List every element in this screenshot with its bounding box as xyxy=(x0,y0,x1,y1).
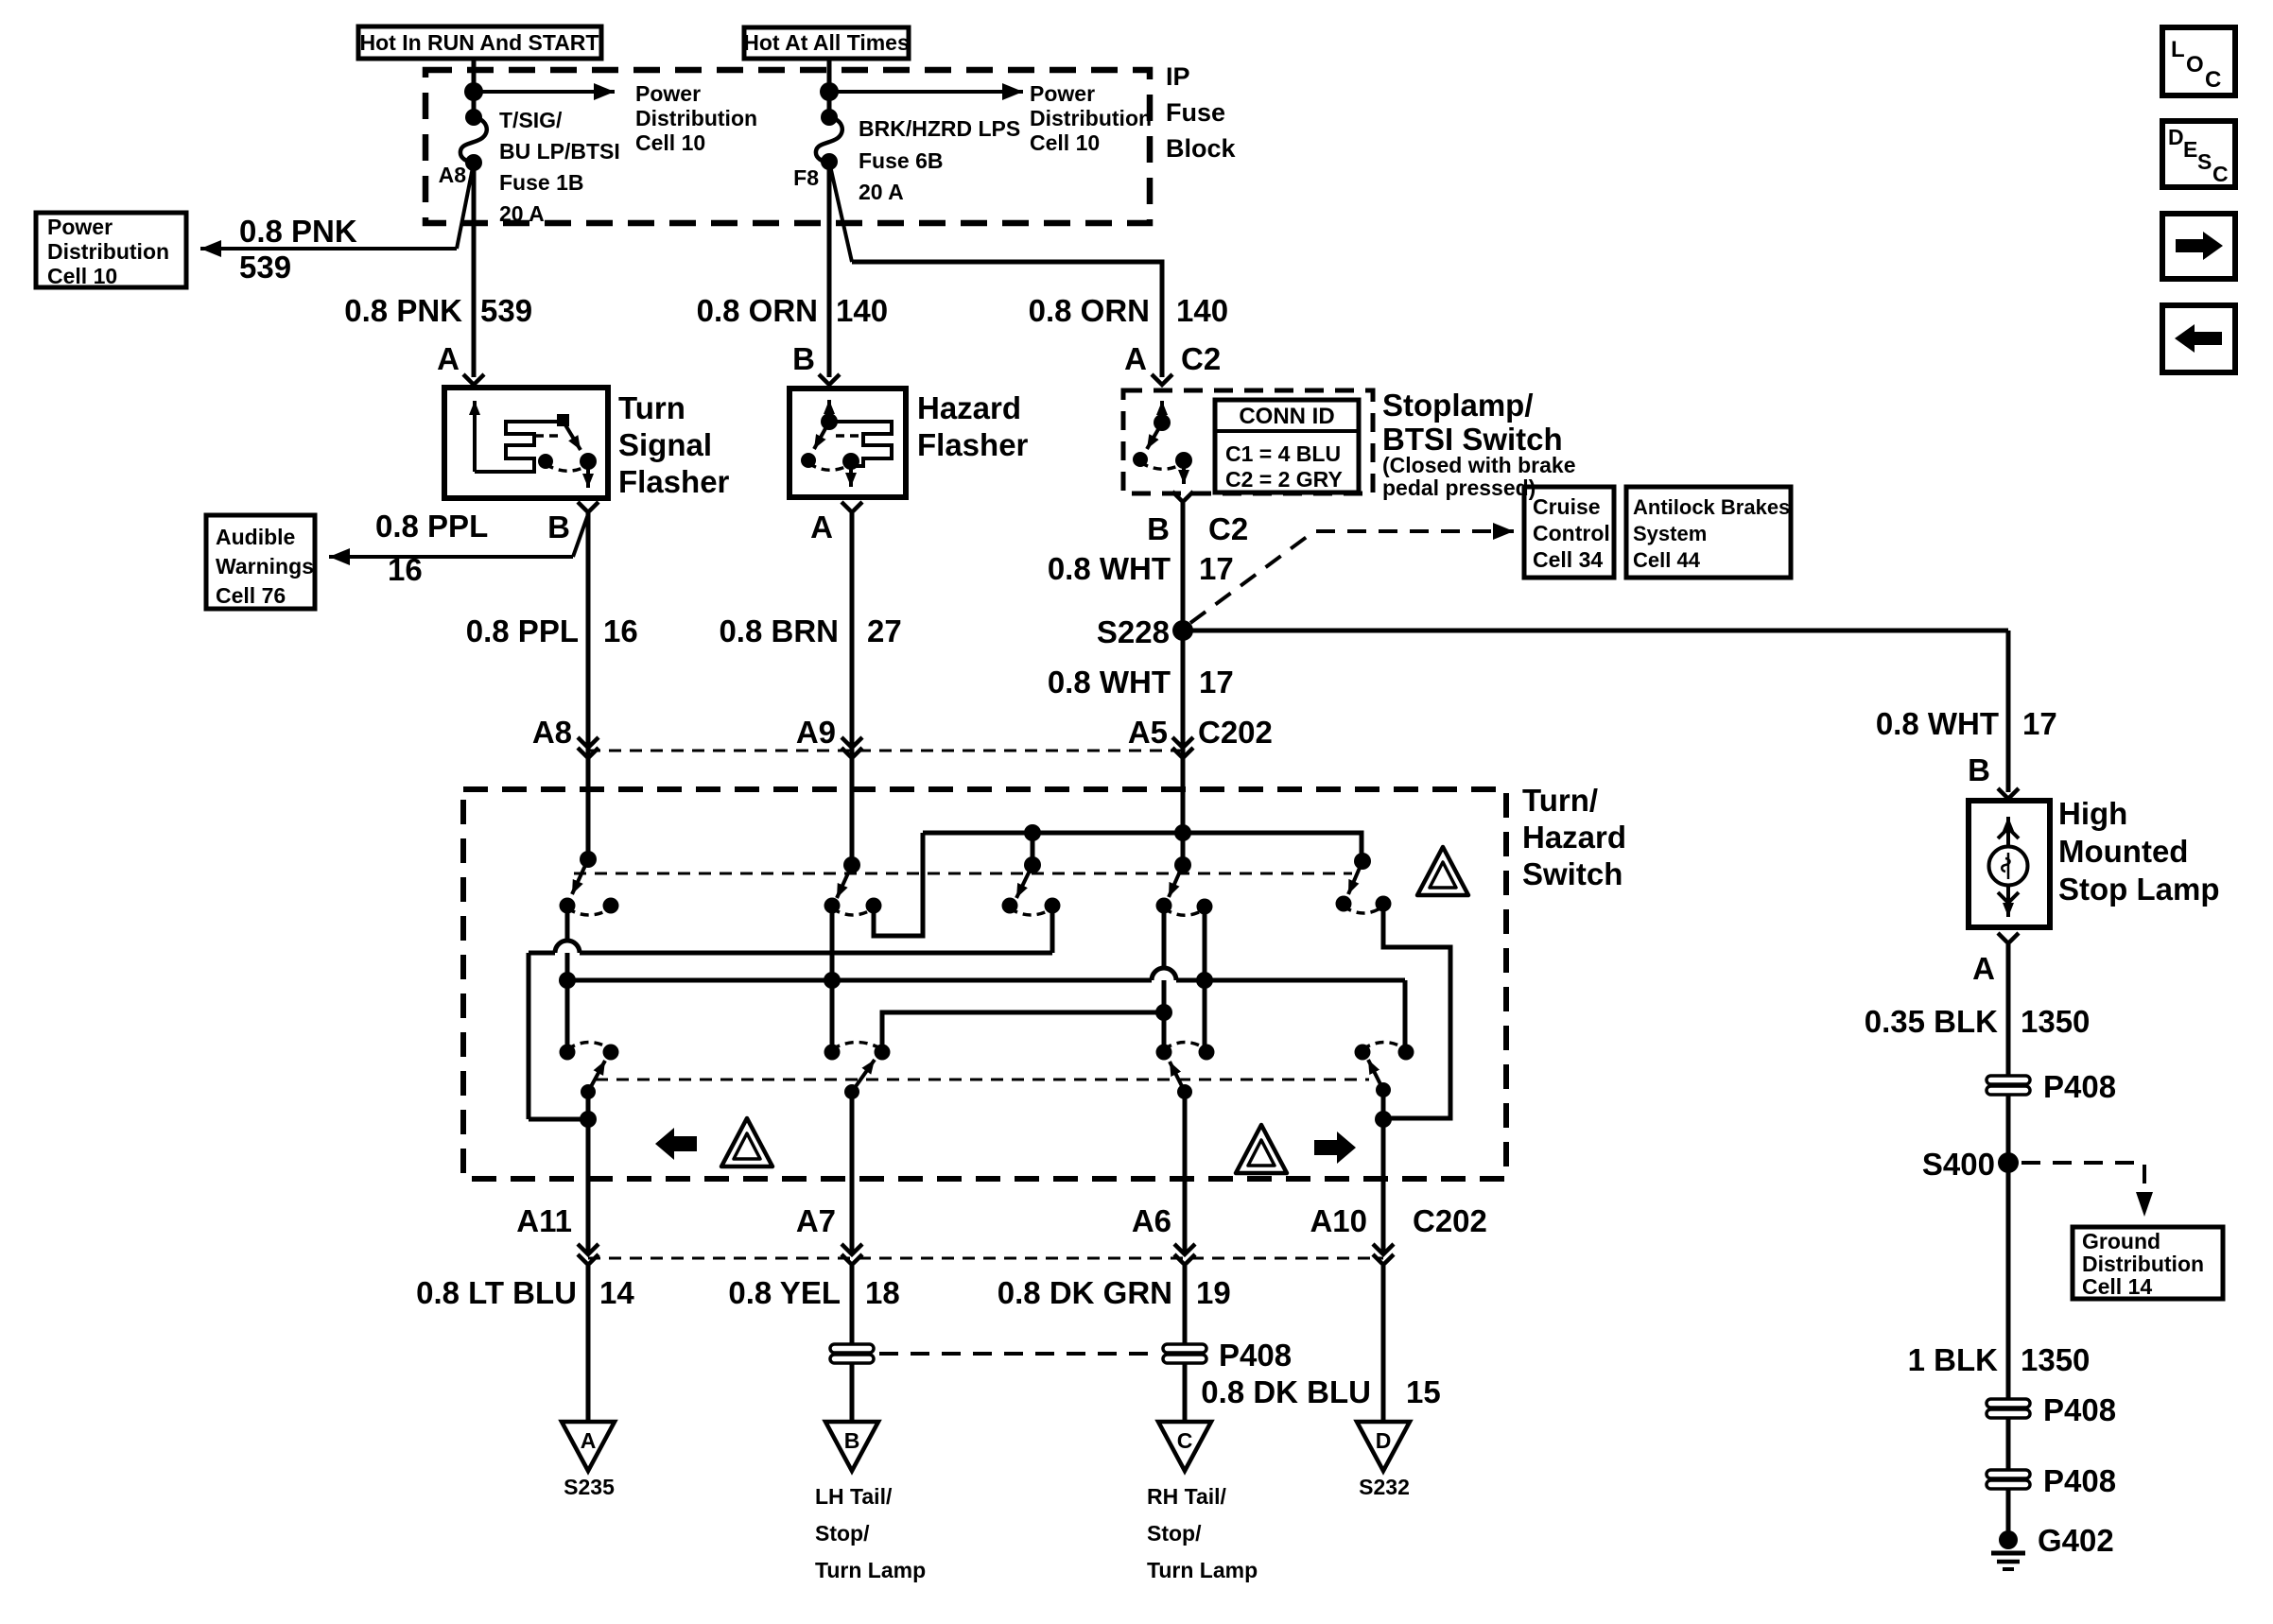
svg-text:B: B xyxy=(1147,511,1170,546)
svg-text:A5: A5 xyxy=(1128,715,1168,750)
wire: turn flasher B output down xyxy=(586,513,591,857)
wire: lower pole 1 arm down to A11 xyxy=(586,1092,591,1253)
header box: Hot At All Times xyxy=(743,27,910,59)
switch pole 3 pivot dot xyxy=(1002,898,1018,914)
turn flasher output down arrow xyxy=(586,462,590,488)
hazard flasher heater meander xyxy=(829,422,892,466)
svg-text:F8: F8 xyxy=(793,165,819,190)
connector chevron at hazard flasher A xyxy=(842,502,862,512)
connector C202 chevrons at A5 xyxy=(1172,737,1193,758)
lower pole 4 right contact dot xyxy=(1398,1045,1414,1061)
connector chevron at stop lamp A xyxy=(1998,933,2019,943)
turn flasher moving contact square dot xyxy=(557,414,569,426)
switch pole 2 arm arrow xyxy=(837,865,852,898)
switch pole 5 top dot xyxy=(1354,853,1371,870)
IP Fuse Block dashed box xyxy=(425,70,1150,223)
hazard flasher input dot xyxy=(821,413,838,430)
svg-text:A: A xyxy=(810,510,833,544)
switch pole 3 right contact dot xyxy=(1045,898,1061,914)
wire: cross bus line B with hop over pole4 vertical xyxy=(567,968,1405,1052)
wire 0.8 ORN 140 down to hazard flasher xyxy=(827,162,832,377)
svg-text:0.8 ORN: 0.8 ORN xyxy=(697,293,818,328)
lower pole 2 left contact dot xyxy=(824,1045,841,1061)
turn flasher right contact dot xyxy=(580,453,597,470)
hazard warning triangle (lower right) xyxy=(1236,1125,1287,1173)
stoplamp switch left contact dot xyxy=(1133,452,1148,467)
svg-text:B: B xyxy=(1968,752,1990,787)
turn flasher thermal dashed link xyxy=(535,434,564,438)
connector C202 chevrons at A10 xyxy=(1373,1244,1394,1265)
box: Antilock Brakes System Cell 44 xyxy=(1626,487,1791,578)
svg-text:0.8 LT BLU: 0.8 LT BLU xyxy=(416,1275,577,1310)
svg-text:Hot In RUN And START: Hot In RUN And START xyxy=(360,30,599,55)
lower pole 3 dashed throw arc xyxy=(1164,1043,1206,1050)
inline connector P408 on A6 wire xyxy=(1163,1344,1206,1363)
wire arrow 0.8 PPL 16 to Audible Warnings box xyxy=(329,555,573,559)
wire from Hot At All Times to fuse 6B xyxy=(827,59,832,119)
wire arrow 0.8 PNK 539 to Power Distribution box xyxy=(200,247,457,251)
dashed connector line C202 (upper row) xyxy=(588,750,1183,752)
svg-text:CONN ID: CONN ID xyxy=(1239,404,1334,429)
switch pole 2 top dot xyxy=(843,856,860,873)
node: splice S228 xyxy=(1172,620,1193,641)
hazard warning triangle (lower left) xyxy=(721,1118,772,1166)
svg-text:B: B xyxy=(792,341,815,376)
switch pole 1 top dot xyxy=(580,851,597,868)
hazard flasher left contact dot xyxy=(801,453,816,468)
svg-text:0.8 PNK: 0.8 PNK xyxy=(344,293,462,328)
svg-text:539: 539 xyxy=(239,250,291,285)
header box: Hot In RUN And START xyxy=(358,26,601,59)
svg-text:0.8 YEL: 0.8 YEL xyxy=(728,1275,841,1310)
svg-text:S232: S232 xyxy=(1359,1475,1410,1499)
svg-text:G402: G402 xyxy=(2038,1523,2114,1558)
lower pole 1 right contact dot xyxy=(603,1045,619,1061)
svg-text:S400: S400 xyxy=(1922,1147,1995,1182)
stoplamp switch output down arrow xyxy=(1182,461,1186,484)
connector C202 chevrons at A7 xyxy=(842,1244,862,1265)
svg-text:0.8 DK GRN: 0.8 DK GRN xyxy=(998,1275,1172,1310)
dashed reference from S400 to Ground Distribution xyxy=(2021,1163,2144,1188)
node: junction dot at fuse 6B feed xyxy=(820,82,839,101)
node: junction dot at fuse 1B feed xyxy=(464,82,483,101)
wire: lower pole 4 arm down to A10 xyxy=(1381,1090,1386,1253)
stoplamp switch internal up arrow xyxy=(1160,401,1164,423)
svg-text:E: E xyxy=(2183,137,2197,162)
wire: A5 into switch pole 4 xyxy=(1181,758,1186,865)
wire: pole 5 right contact loop to lower pole 4 output xyxy=(1383,904,1450,1118)
lower pole 2 dashed throw arc xyxy=(832,1043,882,1050)
svg-text:0.8 DK BLU: 0.8 DK BLU xyxy=(1201,1374,1371,1409)
connector C202 chevrons at A8 xyxy=(578,737,599,758)
svg-text:O: O xyxy=(2186,52,2204,78)
wire: stoplamp switch B output down to S228 and A5 xyxy=(1181,503,1186,863)
lower pole 2 arm arrow xyxy=(852,1060,875,1092)
svg-text:17: 17 xyxy=(2022,706,2057,741)
svg-text:C2: C2 xyxy=(1181,341,1221,376)
svg-text:0.8 PNK: 0.8 PNK xyxy=(239,214,357,249)
connector C202 chevrons at A11 xyxy=(578,1244,599,1265)
terminal triangle D xyxy=(1357,1422,1410,1471)
svg-text:539: 539 xyxy=(480,293,532,328)
wire: down to high mounted stop lamp B xyxy=(2006,631,2011,792)
svg-text:C: C xyxy=(2212,162,2229,186)
wire: A8 into switch pole 1 xyxy=(586,758,591,859)
svg-text:A8: A8 xyxy=(439,163,467,187)
wire: pole 4 pivot down to lower pole 3 left contact xyxy=(1162,906,1167,1052)
connector chevron at stop lamp B xyxy=(1998,788,2019,799)
svg-text:17: 17 xyxy=(1199,665,1234,700)
switch pole 1 arm arrow xyxy=(572,859,588,894)
switch pole 4 right contact dot xyxy=(1197,899,1213,915)
inline connector P408 (upper, right column) xyxy=(1987,1076,2030,1095)
wire: A10 down to terminal D xyxy=(1381,1266,1386,1421)
wire: A11 down to splice terminal A xyxy=(586,1266,591,1421)
wire: cross bus line C xyxy=(882,1012,1164,1052)
wire: top bus (line T) with corner down to pole 5 xyxy=(923,833,1362,861)
stop lamp internal up arrow and pin chevron xyxy=(1998,817,2019,846)
wire from Hot In RUN And START to fuse 1B xyxy=(472,59,477,119)
switch top gang dashed line xyxy=(574,872,1352,875)
svg-text:140: 140 xyxy=(1176,293,1228,328)
CONN ID table box xyxy=(1215,400,1359,492)
node: line B dot at pole 1 xyxy=(559,972,576,989)
svg-text:A8: A8 xyxy=(532,715,572,750)
lower pole 3 arm arrow xyxy=(1170,1062,1185,1092)
svg-text:P408: P408 xyxy=(1219,1338,1292,1373)
svg-text:0.35 BLK: 0.35 BLK xyxy=(1865,1004,1998,1039)
switch pole 4 pivot dot xyxy=(1156,898,1172,914)
wire: pole 2 right contact jog up to top bus xyxy=(874,833,923,936)
turn flasher left contact dot xyxy=(538,454,553,469)
wire 0.8 PNK 539 down to turn signal flasher xyxy=(472,163,477,377)
svg-text:P408: P408 xyxy=(2043,1069,2116,1104)
svg-text:1350: 1350 xyxy=(2021,1004,2090,1039)
wire: A9 into switch pole 2 xyxy=(850,758,855,865)
fuse 1B (T/SIG/BU LP/BTSI 20 A) xyxy=(460,109,487,171)
svg-text:15: 15 xyxy=(1406,1374,1441,1409)
switch pole 1 pivot dot xyxy=(560,898,576,914)
wire slant tap to Audible Warnings xyxy=(573,514,588,557)
svg-text:A10: A10 xyxy=(1310,1203,1367,1238)
svg-text:A11: A11 xyxy=(516,1203,572,1238)
terminal triangle B xyxy=(825,1422,878,1471)
connector chevron at turn flasher A xyxy=(463,374,484,385)
connector chevron at turn flasher B xyxy=(578,502,599,512)
svg-text:C202: C202 xyxy=(1413,1203,1487,1238)
box: Power Distribution Cell 10 xyxy=(36,213,186,288)
wire: A6 down to terminal C xyxy=(1183,1266,1188,1421)
inline connector P408 on A7 wire xyxy=(830,1344,874,1363)
ground G402 xyxy=(1991,1530,2025,1569)
svg-text:0.8 PPL: 0.8 PPL xyxy=(375,509,488,544)
component: Hazard Flasher box xyxy=(789,389,906,497)
wire: cross bus line A with hop over pole1 vertical xyxy=(529,906,1052,1119)
svg-text:A6: A6 xyxy=(1132,1203,1171,1238)
svg-text:0.8 WHT: 0.8 WHT xyxy=(1048,551,1171,586)
box: Ground Distribution Cell 14 xyxy=(2073,1227,2223,1299)
svg-text:19: 19 xyxy=(1196,1275,1231,1310)
node: line C dot at pole 4 pivot vertical xyxy=(1155,1004,1172,1021)
wire: S228 to high mounted stop lamp (horizontal) xyxy=(1183,629,2008,633)
hazard flasher right contact dot xyxy=(842,453,859,470)
lower pole 4 left contact dot xyxy=(1355,1045,1371,1061)
svg-text:C: C xyxy=(2205,67,2221,93)
switch pole 4 arm arrow xyxy=(1169,865,1183,897)
component: Turn Signal Flasher box xyxy=(444,388,608,498)
lower pole 4 dashed throw arc xyxy=(1362,1043,1406,1050)
svg-text:0.8 BRN: 0.8 BRN xyxy=(719,613,839,648)
svg-text:B: B xyxy=(844,1428,860,1453)
svg-text:27: 27 xyxy=(867,613,902,648)
terminal triangle C xyxy=(1158,1422,1211,1471)
svg-text:18: 18 xyxy=(865,1275,900,1310)
svg-text:L: L xyxy=(2171,37,2185,62)
left turn solid arrow xyxy=(655,1128,697,1160)
svg-text:1 BLK: 1 BLK xyxy=(1908,1342,1999,1377)
component: Stoplamp/BTSI Switch dashed box xyxy=(1123,390,1373,493)
svg-text:D: D xyxy=(2168,125,2184,149)
svg-text:16: 16 xyxy=(603,613,638,648)
stoplamp switch right contact dot xyxy=(1175,452,1192,469)
wire: hazard flasher A output down xyxy=(850,513,855,863)
hazard flasher output down arrow xyxy=(849,462,853,487)
inline connector P408 (lower, right column) xyxy=(1987,1470,2030,1489)
switch pole 5 right contact dot xyxy=(1376,896,1392,912)
wire: lower pole 3 arm down to A6 xyxy=(1183,1092,1188,1253)
node: loop junction dot at A10 column xyxy=(1375,1111,1392,1128)
lower pole 1 left contact dot xyxy=(560,1045,576,1061)
svg-text:0.8 ORN: 0.8 ORN xyxy=(1029,293,1150,328)
svg-text:P408: P408 xyxy=(2043,1392,2116,1427)
fuse 6B (BRK/HZRD LPS 20 A) xyxy=(816,109,842,170)
turn flasher contact arm arrow xyxy=(564,423,581,450)
svg-text:A7: A7 xyxy=(796,1203,836,1238)
svg-text:C2 = 2 GRY: C2 = 2 GRY xyxy=(1225,467,1343,492)
switch pole 4 dashed throw arc xyxy=(1164,908,1205,915)
switch pole 2 right contact dot xyxy=(866,898,882,914)
node: top bus dot at pole 3 xyxy=(1024,824,1041,841)
legend box LOC xyxy=(2162,27,2235,95)
lower pole 1 arm arrow xyxy=(588,1061,605,1092)
svg-text:A: A xyxy=(437,341,460,376)
svg-text:B: B xyxy=(547,510,570,544)
lower pole 4 arm dot xyxy=(1376,1082,1391,1097)
lower pole 1 arm dot xyxy=(581,1084,596,1099)
switch pole 1 right contact dot xyxy=(603,898,619,914)
switch pole 2 dashed throw arc xyxy=(832,908,874,915)
switch pole 3 arm arrow xyxy=(1016,865,1032,898)
svg-text:C2: C2 xyxy=(1208,511,1248,546)
wire: pole 4 right contact down to lower pole 3 right contact xyxy=(1203,907,1207,1052)
stoplamp switch dashed throw arc xyxy=(1140,462,1184,469)
svg-text:C202: C202 xyxy=(1198,715,1273,750)
svg-text:0.8 PPL: 0.8 PPL xyxy=(466,613,579,648)
svg-text:140: 140 xyxy=(836,293,888,328)
stoplamp switch input dot xyxy=(1154,414,1171,431)
turn flasher dashed throw arc xyxy=(546,464,588,471)
legend box right arrow xyxy=(2162,214,2235,279)
hazard flasher contact arm arrow xyxy=(814,423,828,449)
wire: A7 down to terminal B xyxy=(850,1266,855,1421)
wire: pole 1 pivot down to lower pole 1 left contact xyxy=(565,906,570,1052)
component: Turn/Hazard Switch dashed box xyxy=(463,789,1506,1179)
switch pole 3 top dot xyxy=(1024,856,1041,873)
turn flasher heater meander xyxy=(475,422,563,472)
wire slant from fuse 1B to 0.8 PNK 539 exit xyxy=(457,163,474,249)
svg-text:17: 17 xyxy=(1199,551,1234,586)
hazard flasher thermal dashed link xyxy=(836,434,860,438)
svg-text:A: A xyxy=(1124,341,1147,376)
wire arrow to Power Distribution Cell 10 (right, col 2) xyxy=(829,90,1023,94)
node: dot line D junction at A11 column xyxy=(580,1111,597,1128)
switch pole 2 pivot dot xyxy=(824,898,841,914)
lower pole 3 arm dot xyxy=(1177,1084,1192,1099)
svg-text:16: 16 xyxy=(388,552,423,587)
lower pole 4 arm arrow xyxy=(1368,1060,1383,1090)
lower pole 2 right contact dot xyxy=(875,1045,891,1061)
hazard warning triangle (top right in switch) xyxy=(1417,847,1468,895)
svg-text:CruiseControlCell 34: CruiseControlCell 34 xyxy=(1533,494,1610,572)
svg-text:1350: 1350 xyxy=(2021,1342,2090,1377)
switch lower gang dashed line xyxy=(596,1079,1369,1081)
svg-text:D: D xyxy=(1376,1428,1392,1453)
terminal triangle A xyxy=(562,1422,615,1471)
connector C202 chevrons at A9 xyxy=(842,737,862,758)
hazard flasher dashed throw arc xyxy=(808,463,851,470)
wire: top bus drop to pole 3 xyxy=(1031,833,1035,865)
switch pole 5 pivot dot xyxy=(1336,896,1352,912)
connector chevron at stoplamp switch A C2 xyxy=(1152,374,1172,385)
lower pole 1 dashed throw arc xyxy=(567,1043,611,1050)
svg-text:S235: S235 xyxy=(564,1475,615,1499)
turn flasher internal up arrow xyxy=(473,401,477,472)
dashed link between P408 halves xyxy=(879,1352,1157,1356)
svg-text:A: A xyxy=(581,1428,597,1453)
switch pole 4 top dot xyxy=(1174,856,1191,873)
dashed reference line S228 to Cruise Control xyxy=(1190,531,1514,623)
switch pole 5 dashed throw arc xyxy=(1344,907,1383,913)
svg-text:C1 = 4 BLU: C1 = 4 BLU xyxy=(1225,441,1341,466)
right turn solid arrow xyxy=(1314,1132,1356,1164)
lower pole 2 arm dot xyxy=(844,1084,859,1099)
connector C202 chevrons at A6 xyxy=(1174,1244,1195,1265)
svg-text:A: A xyxy=(1972,951,1995,986)
svg-text:S228: S228 xyxy=(1097,614,1170,649)
wire slant from fuse 6B to 0.8 ORN 140 branch xyxy=(829,162,852,262)
solid arrowhead to Ground Distribution xyxy=(2136,1192,2153,1217)
svg-text:A9: A9 xyxy=(796,715,836,750)
wire 0.8 ORN 140 branch to stoplamp switch column xyxy=(852,262,1162,377)
svg-text:S: S xyxy=(2197,149,2212,174)
wire: lower pole 2 arm down to A7 xyxy=(850,1092,855,1253)
svg-text:Hot At All Times: Hot At All Times xyxy=(743,30,910,55)
node: line B dot at pole 4 right xyxy=(1196,972,1213,989)
wire: stop lamp A down to G402 xyxy=(2006,944,2011,1543)
connector chevron at hazard flasher B xyxy=(819,374,840,385)
lower pole 3 left contact dot xyxy=(1156,1045,1172,1061)
legend box DESC xyxy=(2162,121,2235,187)
inline connector P408 (middle, right column) xyxy=(1987,1399,2030,1418)
stoplamp switch contact arm arrow xyxy=(1147,424,1161,449)
box: Cruise Control Cell 34 xyxy=(1524,487,1614,578)
stop lamp bulb xyxy=(1989,847,2028,886)
node: line B dot at pole 2 xyxy=(824,972,841,989)
node: splice S400 xyxy=(1998,1152,2019,1173)
component: High Mounted Stop Lamp box xyxy=(1969,801,2050,927)
legend box left arrow xyxy=(2162,305,2235,372)
svg-text:0.8 WHT: 0.8 WHT xyxy=(1048,665,1171,700)
switch pole 5 arm arrow xyxy=(1348,861,1362,894)
node: top bus dot at stoplamp column xyxy=(1174,824,1191,841)
connector chevron at stoplamp switch B C2 xyxy=(1172,492,1193,502)
switch pole 3 dashed throw arc xyxy=(1010,908,1052,915)
svg-text:C: C xyxy=(1177,1428,1193,1453)
lower pole 3 right contact dot xyxy=(1199,1045,1215,1061)
box: Audible Warnings Cell 76 xyxy=(206,515,315,609)
svg-text:P408: P408 xyxy=(2043,1463,2116,1498)
svg-text:14: 14 xyxy=(599,1275,634,1310)
wire arrow to Power Distribution Cell 10 (right, col 1) xyxy=(474,90,615,94)
dashed connector line C202 (lower row) xyxy=(588,1257,1383,1260)
stop lamp internal down arrow and pin chevron xyxy=(1998,886,2019,917)
switch pole 1 dashed throw arc xyxy=(567,908,611,915)
hazard flasher internal up arrow xyxy=(827,400,831,423)
wire: pole 2 pivot down to lower pole 2 left contact xyxy=(830,906,835,1052)
svg-text:0.8 WHT: 0.8 WHT xyxy=(1876,706,1999,741)
